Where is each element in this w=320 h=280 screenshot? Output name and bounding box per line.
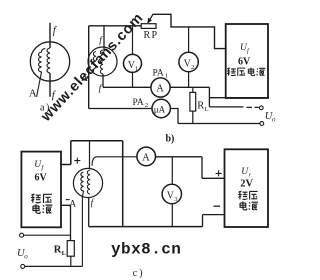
wire tube T3 top lead f (89, 141, 91, 169)
wire upper terminal to RL node (24, 234, 71, 236)
terminal lower U_o (circuit c) (21, 264, 25, 268)
tube T1 right filament coil (47, 48, 50, 73)
wire tube T1 bottom lead f (49, 73, 51, 97)
wire ammeter to 2V box + (156, 157, 225, 179)
voltmeter V1 (124, 54, 142, 72)
wire V3 top lead (171, 157, 173, 185)
svg-text:c): c) (133, 268, 145, 279)
regulated supply U_r 2V box (circuit c) (225, 149, 269, 227)
terminal lower U_o (260, 122, 264, 126)
tube T2 left electrode coil (91, 52, 96, 71)
wire left branch (anode feed) circuit b (88, 26, 90, 109)
voltmeter V3 (162, 184, 181, 203)
svg-text:A: A (156, 84, 164, 95)
label 稳压 (2V box) (238, 191, 257, 200)
label + (2V box) (216, 170, 222, 176)
terminal upper U_o (circuit c) (20, 233, 24, 237)
wire to upper output terminal (partly dashed) (209, 106, 258, 109)
wire RP wiper to supply (upper jog) (153, 14, 226, 48)
svg-text:R: R (54, 245, 62, 256)
label -A (6V box c minus to anode) (66, 199, 70, 201)
wire top rail circuit b (89, 25, 142, 27)
tube T3 envelope (73, 168, 102, 197)
tube T3 right filament coil (87, 170, 90, 194)
label 电源 (6V box c) (33, 204, 52, 213)
potentiometer RP body (141, 24, 156, 29)
wire V2 top lead (188, 27, 190, 52)
svg-text:b): b) (166, 134, 175, 145)
wire PA1 to supply return (170, 86, 209, 88)
tube T2 envelope (88, 47, 117, 76)
svg-text:R: R (144, 30, 151, 41)
voltmeter V2 (179, 52, 198, 71)
label - (2V box) (214, 205, 221, 207)
regulated supply U_f 6V box (circuit b) (226, 24, 268, 98)
svg-text:L: L (205, 106, 209, 113)
wire anode rail to PA2 (89, 108, 152, 110)
wire V1 top lead (132, 26, 134, 55)
tube T2 right filament coil (100, 50, 103, 74)
potentiometer RP wiper arrow (149, 14, 153, 21)
wire PA2 output, down to output rail (170, 109, 178, 124)
tube T3 left electrode coil and anode lead (81, 172, 84, 266)
wire heater return to box bottom (209, 87, 265, 107)
resistor RL (circuit b) (192, 87, 194, 123)
svg-text:A: A (142, 153, 150, 164)
svg-text:f: f (53, 25, 58, 37)
svg-text:1: 1 (135, 66, 138, 73)
svg-text:o: o (272, 116, 276, 124)
label 电源 (2V box) (240, 201, 258, 210)
wire lower terminal to anode line (25, 265, 83, 267)
svg-text:f: f (91, 198, 95, 209)
ammeter PA1 (151, 78, 170, 97)
resistor RL (circuit c) (67, 241, 74, 257)
svg-text:PA: PA (153, 68, 164, 78)
wire V2 bottom lead (188, 72, 190, 88)
svg-text:6V: 6V (238, 57, 251, 68)
svg-text:3: 3 (174, 196, 177, 203)
label 稳压 (6V box c) (31, 194, 52, 203)
label 稳压电源 (6V box b) (227, 68, 265, 76)
wire tube T1 top lead f (49, 23, 51, 48)
svg-text:f: f (99, 83, 103, 94)
wire tube T2 top lead (103, 26, 105, 50)
wire V3 bottom lead (171, 204, 173, 227)
svg-text:A: A (29, 88, 37, 100)
terminal upper U_o (259, 106, 263, 110)
svg-text:ybx8.cn: ybx8.cn (111, 241, 181, 259)
ammeter A (circuit c) (137, 147, 156, 166)
wire lower output rail (178, 123, 260, 125)
wire tube T2 bottom lead (102, 74, 104, 87)
wire tube T3 bottom lead f (88, 198, 90, 227)
regulated supply U_f 6V box (circuit c) (21, 152, 61, 228)
svg-text:R: R (197, 101, 204, 112)
wire 6V box - to RL (circuit c) (61, 205, 71, 240)
svg-text:PA: PA (133, 98, 144, 108)
svg-text:μA: μA (154, 105, 166, 115)
svg-text:2: 2 (191, 64, 194, 71)
wire bottom rail (circuit c) (89, 226, 203, 228)
svg-text:o: o (24, 253, 28, 261)
tube T1 left electrode coil (37, 49, 46, 97)
wire filament rail (T2 to PA1) (103, 86, 151, 88)
svg-text:P: P (152, 30, 158, 41)
wire V1 bottom lead (132, 72, 134, 87)
tube T1 envelope (30, 42, 69, 81)
svg-text:2V: 2V (240, 179, 253, 190)
label + (6V box c) (74, 158, 80, 164)
svg-text:6V: 6V (35, 173, 48, 184)
svg-text:L: L (62, 250, 67, 257)
wire bottom rail to 2V box - (203, 215, 225, 227)
wire T3 anode hook to ammeter (92, 157, 96, 166)
wire 6V box + lead and top rail (circuit c) (61, 141, 123, 227)
microammeter PA2 (152, 99, 170, 117)
